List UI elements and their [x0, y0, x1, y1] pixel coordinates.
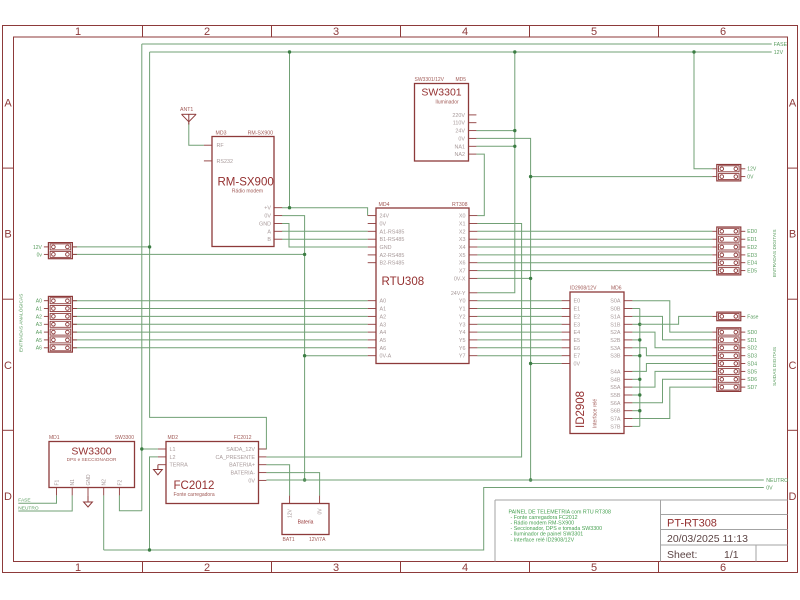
svg-text:SD7: SD7 [747, 385, 757, 391]
wire net NEUTRO from FC2012 0V pin [266, 479, 763, 481]
svg-text:S1A: S1A [610, 314, 621, 320]
wire RTU308 Y2 to ID2908 E2 [477, 315, 561, 317]
relay interface module MD6 ID2908 box and pins [562, 292, 633, 434]
battery BAT1 box and pins [282, 496, 329, 535]
svg-text:RF: RF [217, 143, 225, 149]
wire FC2012 L2 drop [150, 457, 158, 550]
wire RM-SX900 GND to RTU308 GND [282, 224, 368, 248]
svg-text:220V: 220V [452, 113, 465, 119]
junction FASE / L1 / F2 [140, 447, 143, 450]
wire RTU308 Y6 to ID2908 E6 [477, 347, 561, 349]
svg-text:A6: A6 [36, 346, 42, 352]
svg-text:B: B [267, 237, 271, 243]
pin names battery [288, 508, 324, 518]
svg-text:RS232: RS232 [217, 159, 233, 165]
wire RTU308 Y5 to ID2908 E5 [477, 339, 561, 341]
svg-text:D: D [4, 491, 12, 503]
label SAIDAS DIGITAIS [772, 347, 778, 386]
wire net 12V top rail [150, 51, 772, 53]
wires ID2908 SnB pins to common [632, 309, 639, 427]
wire SW3301 24V pin [476, 130, 514, 132]
svg-text:MD6: MD6 [611, 285, 622, 291]
frame column numbers 1-6 [75, 26, 726, 574]
svg-text:S2A: S2A [610, 330, 621, 336]
label MD3 [216, 130, 227, 136]
net label FASE [774, 42, 788, 48]
junction NA1 node [513, 145, 516, 148]
svg-text:S6B: S6B [610, 409, 621, 415]
connector analog inputs A0-A6 [36, 296, 77, 352]
connector digital inputs ED0-ED5 [712, 227, 757, 275]
svg-text:2: 2 [204, 26, 210, 38]
svg-text:S0A: S0A [610, 299, 621, 305]
label 12V/7A [309, 537, 326, 543]
wire net 12V left vertical to SAIDA_12V [150, 52, 267, 449]
wire RTU308 Y4 to ID2908 E4 [477, 331, 561, 333]
svg-text:ED0: ED0 [747, 229, 757, 235]
wire SW3301 NA1 pin [476, 145, 514, 147]
value Iluminador subtitle [435, 99, 459, 105]
wire net 0V: RM-SX900 0V vertical [282, 216, 305, 480]
label MD4 [379, 202, 390, 208]
svg-text:S4A: S4A [610, 369, 621, 375]
wire SW3300 F1 to FASE flag [18, 495, 56, 503]
pin names SW3300 [54, 474, 123, 486]
svg-text:E4: E4 [574, 330, 581, 336]
svg-text:A2-RS485: A2-RS485 [380, 253, 405, 259]
wire net FASE vertical drop to L1/F2 [141, 44, 143, 511]
label ID2908/12V ref [570, 285, 597, 291]
svg-text:3: 3 [333, 562, 339, 574]
svg-text:S7A: S7A [610, 417, 621, 423]
wire RTU308 X2 to ED0 [477, 230, 712, 232]
svg-text:DPS e SECCIONADOR: DPS e SECCIONADOR [67, 457, 117, 462]
svg-text:L2: L2 [170, 455, 176, 461]
wire connector X1 0V row [72, 253, 304, 255]
title block description text [509, 510, 611, 544]
svg-text:SD3: SD3 [747, 354, 757, 360]
wire ID2908 0V pin [531, 363, 562, 365]
junction 0V / 0V-A [303, 354, 306, 357]
svg-text:NEUTRO: NEUTRO [18, 506, 39, 512]
svg-text:FASE: FASE [18, 498, 30, 504]
svg-text:SD1: SD1 [747, 338, 757, 344]
wire 12V drop to SW3301 and 24V-Y [477, 52, 514, 293]
label MD6 [611, 285, 622, 291]
svg-text:FC2012: FC2012 [234, 435, 252, 441]
pin names ID2908 [574, 299, 621, 431]
value Bateria [298, 520, 314, 526]
svg-text:Y3: Y3 [459, 322, 466, 328]
svg-text:SW3301: SW3301 [421, 87, 461, 99]
wire FASE branch into FC2012 L1 [142, 448, 158, 450]
junction 0V vertical / FC 0V line [529, 478, 532, 481]
svg-text:5: 5 [591, 562, 597, 574]
net label 0V right [766, 486, 773, 492]
wire net 0V: SW3301 0V vertical [476, 138, 530, 480]
svg-text:A: A [267, 229, 271, 235]
svg-text:NA2: NA2 [455, 152, 466, 158]
svg-text:0V: 0V [747, 175, 754, 181]
wire FC2012 BATERIA+ to battery 12V [266, 465, 289, 496]
svg-text:0V: 0V [248, 478, 255, 484]
svg-text:A1-RS485: A1-RS485 [380, 229, 405, 235]
svg-text:0V: 0V [318, 508, 324, 515]
junction 12V rail / RM drop [288, 50, 291, 53]
svg-text:RM-SX900: RM-SX900 [248, 130, 273, 136]
svg-text:A1: A1 [36, 306, 42, 312]
wire connector A5 to RTU308 A5 [72, 339, 367, 341]
svg-text:D: D [789, 491, 797, 503]
svg-text:BATERIA-: BATERIA- [231, 471, 256, 477]
svg-text:E6: E6 [574, 346, 581, 352]
junction 0V / right connector [529, 175, 532, 178]
svg-text:1: 1 [75, 562, 81, 574]
svg-text:X6: X6 [459, 261, 466, 267]
svg-text:0V-X: 0V-X [454, 276, 466, 282]
svg-text:GND: GND [259, 222, 271, 228]
svg-text:2: 2 [204, 562, 210, 574]
wire connector A1 to RTU308 A1 [72, 308, 367, 310]
net label 12V [774, 50, 784, 56]
svg-text:Fonte carregadora: Fonte carregadora [174, 492, 215, 498]
svg-text:SD6: SD6 [747, 377, 757, 383]
svg-text:S2B: S2B [610, 338, 621, 344]
svg-text:S5A: S5A [610, 385, 621, 391]
svg-text:S3A: S3A [610, 346, 621, 352]
svg-text:NEUTRO: NEUTRO [766, 478, 788, 484]
svg-text:RT308: RT308 [452, 202, 468, 208]
svg-text:1/1: 1/1 [724, 549, 739, 561]
pin names RM-SX900 [217, 143, 272, 243]
svg-text:Y2: Y2 [459, 314, 466, 320]
svg-text:RM-SX900: RM-SX900 [218, 177, 274, 189]
wire RM-SX900 B to RTU308 B1-RS485 [282, 238, 368, 240]
net label NEUTRO bottom-left [18, 506, 39, 512]
svg-text:FC2012: FC2012 [174, 480, 215, 492]
frame row letters A-D [4, 98, 797, 504]
label MD5 [455, 77, 466, 83]
wire ID2908 S5A to SD5 [632, 371, 712, 387]
svg-text:BAT1: BAT1 [283, 537, 295, 543]
svg-text:MD5: MD5 [455, 77, 466, 83]
svg-text:SD4: SD4 [747, 361, 757, 367]
svg-text:CA_PRESENTE: CA_PRESENTE [215, 455, 255, 461]
wire connector A4 to RTU308 A4 [72, 331, 367, 333]
wire SW3300 N1 to NEUTRO flag [18, 495, 72, 511]
svg-text:24V: 24V [455, 129, 465, 135]
wire 12V drop to RM-SX900 +V [289, 52, 291, 208]
svg-text:X1: X1 [459, 222, 466, 228]
svg-text:F2: F2 [117, 479, 123, 485]
svg-text:B: B [789, 229, 796, 241]
svg-text:MD1: MD1 [49, 435, 60, 441]
label ANT1 [180, 107, 193, 113]
svg-text:S0B: S0B [610, 307, 621, 313]
svg-text:Y6: Y6 [459, 346, 466, 352]
svg-text:Y7: Y7 [459, 354, 466, 360]
svg-text:GND: GND [86, 474, 92, 486]
svg-text:24V: 24V [380, 214, 390, 220]
svg-text:C: C [789, 360, 797, 372]
svg-text:BATERIA+: BATERIA+ [229, 463, 255, 469]
wire RTU308 X7 to ED5 [477, 270, 712, 272]
junction 0V rail / L2 [148, 548, 151, 551]
svg-text:SW3301/12V: SW3301/12V [415, 77, 445, 83]
wire connector A2 to RTU308 A2 [72, 315, 367, 317]
svg-text:ID2908/12V: ID2908/12V [570, 285, 597, 291]
wire net 0V bottom rail [104, 488, 764, 551]
op-amp substitute: radio modem module MD3 RM-SX900 box and pins [204, 137, 282, 247]
label MD1 [49, 435, 60, 441]
net label NEUTRO right [766, 478, 788, 484]
svg-text:12V: 12V [288, 508, 294, 518]
label BAT1 [283, 537, 295, 543]
wire right connector 0V row [531, 176, 713, 178]
label SW3301/12V ref [415, 77, 445, 83]
ground symbol at FC2012 TERRA [154, 465, 163, 475]
wire ID2908 S4A to SD4 [632, 364, 712, 372]
svg-text:S7B: S7B [610, 424, 621, 430]
label FC2012 ref [234, 435, 252, 441]
value Fonte carregadora subtitle [174, 492, 215, 498]
wire ID2908 S1A to SD1 [632, 316, 712, 340]
junction 0V / 0V-X [529, 277, 532, 280]
svg-text:5: 5 [591, 26, 597, 38]
wire RTU308 X6 to ED4 [477, 262, 712, 264]
svg-text:12V/7A: 12V/7A [309, 537, 326, 543]
junction 0V / ID2908 0V [529, 362, 532, 365]
svg-text:X2: X2 [459, 229, 466, 235]
label ENTRADAS DIGITAIS [772, 229, 778, 277]
wire RTU308 Y7 to ID2908 E7 [477, 355, 561, 357]
antenna ANT1 [182, 114, 197, 124]
junction 24V node [513, 129, 516, 132]
svg-text:B2-RS485: B2-RS485 [380, 261, 405, 267]
wire ID2908 S0A to SD0 [632, 301, 712, 332]
svg-text:B1-RS485: B1-RS485 [380, 237, 405, 243]
value SW3301 title [421, 87, 461, 99]
svg-text:0V: 0V [766, 486, 773, 492]
svg-text:N1: N1 [70, 479, 76, 486]
svg-text:SD5: SD5 [747, 369, 757, 375]
wire net FASE top rail [142, 43, 772, 45]
wire connector A3 to RTU308 A3 [72, 323, 367, 325]
svg-text:0V: 0V [574, 362, 581, 368]
wire RTU308 X3 to ED1 [477, 238, 712, 240]
svg-text:Y4: Y4 [459, 330, 466, 336]
wire RTU308 Y0 to ID2908 E0 [477, 300, 561, 302]
wire ID2908 S7A to SD7 [632, 387, 712, 418]
svg-text:E5: E5 [574, 338, 581, 344]
connector digital outputs SD0-SD7 [712, 328, 757, 392]
svg-text:SW3300: SW3300 [115, 435, 134, 441]
net label FASE bottom-left [18, 498, 30, 504]
wire RTU308 0V-A pin [305, 355, 368, 357]
svg-text:E7: E7 [574, 354, 581, 360]
svg-text:6: 6 [720, 562, 726, 574]
svg-text:X3: X3 [459, 237, 466, 243]
junction 12V rail / SW3301 drop [513, 50, 516, 53]
svg-text:+V: +V [264, 206, 271, 212]
wire 12V drop to right connector [694, 52, 712, 169]
svg-text:X0: X0 [459, 214, 466, 220]
value FC2012 title [174, 480, 215, 492]
svg-text:X5: X5 [459, 253, 466, 259]
svg-text:20/03/2025 11:13: 20/03/2025 11:13 [667, 533, 748, 545]
svg-text:4: 4 [462, 562, 468, 574]
svg-text:12V: 12V [747, 167, 757, 173]
svg-text:ED5: ED5 [747, 269, 757, 275]
svg-text:S4B: S4B [610, 377, 621, 383]
svg-text:A3: A3 [380, 322, 387, 328]
svg-text:S5B: S5B [610, 393, 621, 399]
label RT308 ref [452, 202, 468, 208]
svg-text:RTU308: RTU308 [382, 276, 425, 288]
wire RTU308 Y1 to ID2908 E1 [477, 308, 561, 310]
svg-text:F1: F1 [54, 479, 60, 485]
svg-text:FASE: FASE [774, 42, 788, 48]
svg-text:ED3: ED3 [747, 253, 757, 259]
svg-text:E3: E3 [574, 322, 581, 328]
svg-text:NA1: NA1 [455, 144, 466, 150]
wire SW3300 F2 jog to FASE [119, 495, 141, 510]
pin names FC2012 [170, 447, 256, 484]
svg-text:MD3: MD3 [216, 130, 227, 136]
wire Fase connector to relay common [640, 316, 713, 324]
svg-text:Iluminador: Iluminador [435, 99, 459, 105]
svg-text:Sheet:: Sheet: [667, 549, 697, 561]
junction 0V / connector row [303, 253, 306, 256]
title block document name PT-RT308 [667, 518, 717, 530]
svg-text:C: C [4, 360, 12, 372]
svg-text:A5: A5 [380, 338, 387, 344]
svg-text:ANT1: ANT1 [180, 107, 193, 113]
svg-text:X7: X7 [459, 269, 466, 275]
wire relay common vertical (S0B-S7B) [639, 309, 641, 427]
svg-text:0V-A: 0V-A [380, 354, 392, 360]
svg-text:A: A [4, 98, 12, 110]
value Radio modem subtitle [232, 188, 263, 194]
svg-text:1: 1 [75, 26, 81, 38]
wire ID2908 S2A to SD2 [632, 332, 712, 348]
svg-text:N2: N2 [102, 479, 108, 486]
value Interface rele subtitle [593, 399, 599, 428]
label SW3300 ref [115, 435, 134, 441]
svg-text:SAIDA_12V: SAIDA_12V [226, 447, 255, 453]
svg-text:SAIDAS DIGITAIS: SAIDAS DIGITAIS [772, 347, 778, 386]
lamp module MD5 SW3301 box and pins [415, 84, 477, 162]
label ENTRADAS ANALOGICAS [18, 294, 25, 352]
svg-text:A5: A5 [36, 338, 42, 344]
svg-text:L1: L1 [170, 447, 176, 453]
svg-text:A4: A4 [380, 330, 387, 336]
title block sheet [667, 549, 739, 561]
svg-text:ID2908: ID2908 [575, 391, 587, 428]
svg-text:Y0: Y0 [459, 299, 466, 305]
wire connector A0 to RTU308 A0 [72, 300, 367, 302]
svg-text:0V: 0V [458, 136, 465, 142]
wire ID2908 S6A to SD6 [632, 379, 712, 403]
pin names SW3301 [452, 113, 465, 158]
svg-text:A0: A0 [380, 299, 387, 305]
svg-text:A3: A3 [36, 322, 42, 328]
svg-text:SD0: SD0 [747, 330, 757, 336]
svg-text:SD2: SD2 [747, 346, 757, 352]
svg-text:E0: E0 [574, 299, 581, 305]
svg-text:Y5: Y5 [459, 338, 466, 344]
svg-text:0V: 0V [264, 214, 271, 220]
svg-text:SW3300: SW3300 [71, 445, 111, 457]
svg-text:MD2: MD2 [168, 435, 179, 441]
value ID2908 title [575, 391, 587, 428]
wire ID2908 S3A to SD3 [632, 348, 712, 356]
pin names RTU308 [380, 214, 466, 360]
svg-text:Interface relé: Interface relé [593, 399, 599, 428]
wire SW3300 N2 drop [103, 495, 105, 550]
svg-text:3: 3 [333, 26, 339, 38]
connector X1 12V/0V (left power) [33, 243, 77, 259]
svg-text:0v: 0v [37, 252, 43, 258]
svg-text:12V: 12V [774, 50, 784, 56]
wire FC2012 BATERIA- to battery 0V [266, 473, 319, 496]
svg-text:Fase: Fase [747, 314, 758, 320]
wire RTU308 X5 to ED3 [477, 254, 712, 256]
svg-text:TERRA: TERRA [170, 463, 189, 469]
svg-text:ED2: ED2 [747, 245, 757, 251]
label MD2 [168, 435, 179, 441]
svg-text:6: 6 [720, 26, 726, 38]
svg-text:A2: A2 [36, 314, 42, 320]
svg-text:A: A [789, 98, 797, 110]
svg-text:S6A: S6A [610, 401, 621, 407]
svg-text:0V: 0V [380, 222, 387, 228]
junction 12V rail / right connector [692, 50, 695, 53]
svg-text:Rádio modem: Rádio modem [232, 188, 263, 194]
svg-text:ED1: ED1 [747, 237, 757, 243]
svg-text:24V-Y: 24V-Y [451, 291, 466, 297]
charger module MD2 FC2012 box and pins [158, 442, 267, 504]
label RM-SX900 ref [248, 130, 273, 136]
connector right power 12V/0V [712, 165, 757, 181]
svg-text:S1B: S1B [610, 322, 621, 328]
svg-text:4: 4 [462, 26, 468, 38]
wire SW3301 NA2 to RTU308 X0 [476, 154, 484, 216]
svg-text:S3B: S3B [610, 354, 621, 360]
value SW3300 title [71, 445, 111, 457]
svg-text:ENTRADAS ANALÓGICAS: ENTRADAS ANALÓGICAS [18, 294, 25, 352]
svg-text:E1: E1 [574, 307, 581, 313]
svg-text:A2: A2 [380, 314, 387, 320]
svg-text:E2: E2 [574, 314, 581, 320]
svg-text:X4: X4 [459, 245, 466, 251]
wire RTU308 X4 to ED2 [477, 246, 712, 248]
svg-text:A6: A6 [380, 346, 387, 352]
wire RM-SX900 A to RTU308 A1-RS485 [282, 230, 368, 232]
wire net X1 / CA_PRESENTE [266, 224, 521, 458]
wire RTU308 0V-X pin [477, 277, 530, 279]
svg-text:- Interface relé ID2908/12V: - Interface relé ID2908/12V [511, 537, 575, 543]
value DPS e SECCIONADOR subtitle [67, 457, 117, 462]
RTU module MD4 RTU308 box and pins [368, 208, 478, 364]
wire RM-SX900 +V to RTU308 24V [282, 208, 368, 216]
svg-text:Bateria: Bateria [298, 520, 314, 526]
wire antenna ANT1 to RF [189, 123, 204, 146]
svg-text:A0: A0 [36, 299, 42, 305]
wire connector X1 12V row to 12V net [72, 246, 149, 248]
value RTU308 title [382, 276, 425, 288]
wire connector A6 to RTU308 A6 [72, 347, 367, 349]
